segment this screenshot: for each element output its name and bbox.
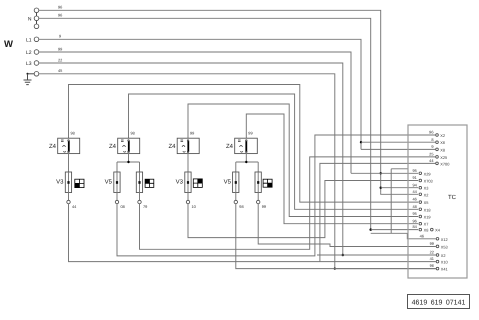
wire group1 return to X10 — [69, 204, 436, 262]
lamp V3 group3 — [185, 172, 191, 193]
pin X12 row15 — [420, 233, 448, 241]
svg-text:22: 22 — [58, 57, 62, 62]
wire feed Z4 group1 — [69, 85, 419, 203]
wire lamp4R down — [257, 193, 259, 201]
svg-text:99: 99 — [430, 241, 434, 246]
svg-text:95: 95 — [412, 211, 416, 216]
svg-text:X18: X18 — [424, 207, 431, 212]
svg-text:99: 99 — [262, 204, 266, 209]
connector circle group1 — [67, 200, 70, 203]
svg-text:V3: V3 — [56, 179, 64, 186]
svg-text:X25: X25 — [440, 155, 447, 160]
pin X5 row10 — [412, 197, 428, 205]
pin X8 row14 — [412, 224, 428, 232]
svg-text:X5: X5 — [424, 200, 429, 205]
wire group2 right return to X25 row4 — [140, 157, 436, 249]
wire row14 X8 from N2 junction — [371, 229, 418, 231]
svg-text:9: 9 — [59, 34, 61, 39]
pin X7 row13 — [412, 218, 428, 226]
terminal circle L1 — [34, 37, 39, 42]
wire lamp2L down — [116, 193, 118, 201]
svg-text:99: 99 — [58, 46, 62, 51]
wire row2 X6 from L1 junction — [361, 141, 435, 143]
connector circle group2 right — [138, 200, 141, 203]
pin X3 row8 — [412, 182, 428, 190]
svg-text:9: 9 — [431, 144, 433, 149]
connector circle group2 left — [115, 200, 118, 203]
svg-text:48: 48 — [412, 204, 416, 209]
indicator checker group4 — [263, 179, 272, 187]
pin X19 row12 — [412, 211, 430, 219]
wire Z4 box3 to V3 lamp3 — [187, 154, 189, 172]
lamp V5 group2 left — [114, 172, 120, 193]
wire row17 left part — [317, 254, 436, 256]
svg-text:V3: V3 — [176, 179, 184, 186]
connector circle group3 — [186, 200, 189, 203]
lamp V5 group4 right — [255, 172, 261, 193]
wire N link — [36, 13, 38, 24]
junction L1-X6 — [360, 141, 362, 143]
svg-text:X700: X700 — [440, 161, 450, 166]
wire group2 left return to X5 row1 — [117, 135, 435, 256]
wire X4 link to X12 — [371, 233, 436, 239]
svg-text:96: 96 — [429, 130, 433, 135]
suppressor Z4 box3 — [177, 138, 199, 153]
svg-text:Z4: Z4 — [168, 143, 176, 150]
wire lamp4L down — [235, 193, 237, 201]
svg-text:L1: L1 — [26, 37, 32, 43]
svg-text:95: 95 — [412, 168, 416, 173]
junction N2-X8 — [369, 228, 372, 231]
connector block TC — [408, 125, 467, 278]
svg-text:8: 8 — [431, 137, 433, 142]
wire Z4 box1 to V3 lamp1 — [68, 154, 70, 172]
wire lamp3 down — [187, 193, 189, 201]
svg-text:46: 46 — [420, 233, 424, 238]
svg-text:08: 08 — [121, 204, 125, 209]
wire group4 left return to X41 row19 — [236, 204, 436, 269]
svg-text:96: 96 — [412, 218, 416, 223]
suppressor Z4 box4 — [235, 138, 258, 153]
terminal circle N3 — [34, 24, 39, 29]
svg-text:91: 91 — [412, 175, 416, 180]
wire lamp2R down — [139, 193, 141, 201]
suppressor Z4 box1 — [58, 138, 80, 153]
pin X41 row19 — [430, 263, 448, 271]
indicator checker group2 — [145, 179, 154, 187]
pin X25 row4 — [429, 152, 447, 160]
svg-text:X8: X8 — [424, 228, 429, 233]
lamp V5 group4 left — [233, 172, 239, 193]
pin X5 row1 — [429, 130, 445, 138]
terminal circle N1 — [34, 8, 39, 13]
wire 22 L3 — [39, 63, 343, 255]
svg-text:X10: X10 — [441, 260, 449, 265]
svg-text:N: N — [28, 16, 32, 22]
svg-text:X7: X7 — [424, 222, 429, 227]
svg-text:22: 22 — [430, 250, 434, 255]
wire group3 return to X703 row7 — [188, 181, 418, 238]
svg-text:X6: X6 — [440, 140, 445, 145]
wire row3 X8 from L1 — [361, 148, 435, 150]
wire 9 L1 — [39, 39, 361, 149]
svg-text:X3: X3 — [424, 186, 429, 191]
wire 96 N1 to TC — [39, 10, 381, 193]
svg-text:X703: X703 — [424, 179, 433, 184]
svg-text:99: 99 — [190, 131, 194, 136]
wire row6 X29 from L2 — [351, 172, 418, 174]
svg-text:X19: X19 — [424, 215, 431, 220]
wire 45 PE — [39, 74, 335, 269]
svg-text:4619 619 07141: 4619 619 07141 — [412, 300, 466, 307]
connector circle group4 right — [257, 200, 260, 203]
wire feed Z4 group4 — [246, 114, 418, 224]
svg-text:25: 25 — [429, 152, 433, 157]
wire row19 X41 right part — [335, 268, 436, 270]
svg-text:45: 45 — [58, 68, 62, 73]
terminal circle PE — [34, 72, 39, 77]
svg-text:X2: X2 — [440, 133, 445, 138]
wire row9 X2 from N1 — [381, 193, 418, 195]
ground — [24, 74, 32, 85]
svg-text:96: 96 — [58, 5, 62, 10]
svg-text:V5: V5 — [224, 179, 232, 186]
svg-text:98: 98 — [131, 131, 135, 136]
junction L3-X2 — [342, 254, 345, 257]
svg-text:V5: V5 — [105, 179, 113, 186]
svg-text:Z4: Z4 — [49, 143, 57, 150]
pin X18 row11 — [412, 204, 430, 212]
svg-text:79: 79 — [143, 204, 147, 209]
svg-text:Z4: Z4 — [109, 143, 117, 150]
indicator checker group1 — [75, 179, 84, 187]
pin X2 row9 — [412, 189, 428, 197]
wire Z4 box2 to V5 bridge — [117, 154, 140, 172]
wire N1 stub to TC edge — [391, 169, 408, 234]
pin X10 row18 — [430, 256, 449, 264]
svg-text:96: 96 — [58, 13, 62, 18]
indicator checker group3 — [193, 179, 202, 188]
pin X53 row16 — [430, 241, 448, 249]
wire 99 L2 — [39, 52, 351, 173]
suppressor Z4 box2 — [118, 138, 140, 153]
pin X29 row6 — [412, 168, 430, 176]
wire group4 right return to X53 row16 — [258, 204, 436, 247]
pin X700 row5 — [429, 158, 450, 166]
terminal circle N2 — [34, 16, 39, 21]
pin X6 row2 — [431, 137, 445, 145]
svg-text:46: 46 — [412, 197, 416, 202]
svg-text:X29: X29 — [424, 171, 431, 176]
svg-text:TC: TC — [448, 194, 457, 201]
connector circle group4 left — [234, 200, 237, 203]
part number box — [408, 295, 470, 309]
svg-text:98: 98 — [71, 131, 75, 136]
svg-text:L3: L3 — [26, 61, 32, 67]
svg-text:Z4: Z4 — [226, 143, 234, 150]
junction N1-X29 — [380, 172, 382, 174]
lamp V3 group1 — [65, 172, 71, 193]
wire PE stub — [28, 73, 35, 75]
terminal circle L3 — [34, 61, 39, 66]
junction bridge4 — [245, 161, 247, 163]
pin X703 row7 — [412, 175, 432, 183]
svg-text:X8: X8 — [440, 147, 445, 152]
svg-text:X4: X4 — [435, 228, 441, 233]
svg-text:96: 96 — [430, 263, 434, 268]
pin X4 row14 — [431, 228, 441, 233]
wire feed Z4 group3 — [188, 104, 418, 217]
pin X2 row17 — [430, 250, 446, 258]
pin X8 row3 — [431, 144, 445, 152]
svg-text:41: 41 — [430, 256, 434, 261]
svg-text:X2: X2 — [441, 253, 446, 258]
svg-text:99: 99 — [248, 131, 252, 136]
terminal circle L2 — [34, 50, 39, 55]
junction bridge2 — [127, 161, 129, 163]
junction PE-X41 — [334, 267, 336, 269]
svg-text:X41: X41 — [441, 267, 448, 272]
wire 96 N2 — [39, 18, 371, 229]
wire row8 X3 from N1 — [381, 187, 418, 189]
svg-text:L2: L2 — [26, 50, 32, 56]
lamp V5 group2 right — [136, 172, 142, 193]
wire row5 X700 tap on group1 return — [320, 163, 435, 261]
svg-text:W: W — [4, 39, 13, 50]
svg-text:X53: X53 — [441, 244, 448, 249]
svg-text:X12: X12 — [441, 237, 448, 242]
wire feed Z4 group2 — [129, 94, 419, 209]
junction N1-X3 — [380, 187, 382, 189]
svg-text:X2: X2 — [424, 192, 429, 197]
svg-text:98: 98 — [239, 204, 243, 209]
junction PE — [27, 73, 29, 75]
wire Z4 box4 to V5 bridge — [236, 154, 258, 172]
wire lamp1 down — [68, 193, 70, 201]
